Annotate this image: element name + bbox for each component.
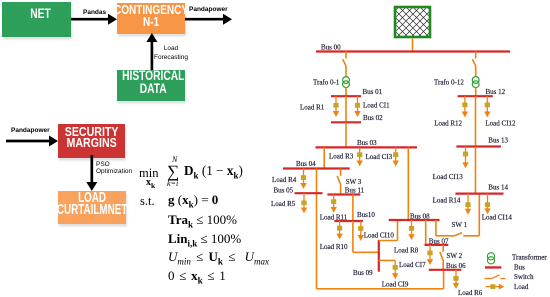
svg-text:Load CI1: Load CI1 — [363, 102, 390, 110]
svg-text:Load R3: Load R3 — [329, 153, 354, 161]
svg-text:Load CI12: Load CI12 — [485, 119, 516, 127]
load Load R12 — [462, 96, 468, 117]
switch SW 3 — [337, 176, 341, 186]
wire Bus 04 through Bus 05 down to bottom feeder — [316, 169, 318, 289]
load Load R14 — [465, 194, 471, 215]
bus Bus10 — [334, 220, 363, 222]
bus Bus 05 — [295, 192, 323, 194]
label PSO Optimization — [96, 161, 132, 176]
arrow SECURITY MARGINS down to LOAD CURTAILMNET — [86, 155, 97, 191]
svg-text:Bus 01: Bus 01 — [363, 88, 383, 96]
svg-text:Load CI13: Load CI13 — [433, 173, 464, 181]
label Pandapower (left) — [11, 127, 50, 134]
bus Bus 03 — [316, 146, 418, 148]
svg-text:SW 2: SW 2 — [447, 252, 463, 260]
generator G0 — [395, 7, 430, 37]
load Load R4 — [300, 169, 306, 189]
svg-text:Bus 08: Bus 08 — [410, 213, 430, 221]
svg-text:Load CI10: Load CI10 — [364, 231, 395, 239]
svg-text:Load CI9: Load CI9 — [382, 280, 409, 288]
svg-text:Load R4: Load R4 — [272, 176, 297, 184]
legend transformer symbol — [487, 253, 494, 264]
svg-text:Load CI14: Load CI14 — [482, 213, 513, 221]
wire Bus 00 down (left branch, to switch) — [345, 52, 347, 59]
svg-text:Transformer: Transformer — [512, 254, 547, 262]
bus Bus 02 — [331, 121, 361, 123]
bus Bus 07 — [425, 244, 449, 246]
load Load R8 — [408, 220, 414, 240]
wire Bus 03 to Bus 04 — [323, 147, 325, 168]
arrow Pandapower into SECURITY MARGINS — [6, 136, 58, 147]
svg-text:Load R12: Load R12 — [434, 119, 462, 127]
transformer Trafo 0-12 — [472, 77, 479, 88]
wire switch to transformer — [345, 66, 347, 77]
switch SW 1 — [455, 233, 463, 236]
bus Bus 08 — [389, 219, 440, 221]
flowchart box LOAD CURTAILMNET — [58, 191, 126, 224]
svg-text:Load R14: Load R14 — [433, 197, 461, 205]
load Load CI3 — [393, 147, 399, 166]
transformer Trafo 0-1 — [343, 77, 350, 88]
svg-text:Bus 03: Bus 03 — [357, 139, 377, 147]
load Load CI10 — [358, 221, 364, 241]
flowchart box NET — [2, 2, 71, 37]
wire transformer to Bus 12 — [475, 88, 477, 97]
bus Bus 12 — [458, 95, 493, 97]
flowchart box SECURITY MARGINS — [58, 124, 125, 158]
svg-text:Trafo 0-1: Trafo 0-1 — [313, 79, 340, 87]
legend load symbol — [486, 284, 505, 290]
svg-text:Load R8: Load R8 — [394, 247, 419, 255]
wire Bus 12 to Bus 13 — [475, 96, 477, 146]
flowchart box HISTORICAL DATA — [117, 70, 185, 101]
load Load CI1 — [354, 96, 360, 117]
flowchart box CONTINGENCY N-1 — [117, 3, 185, 34]
svg-text:Load CI3: Load CI3 — [366, 153, 393, 161]
bus Bus 00 — [316, 50, 510, 52]
bus Bus 14 — [455, 193, 503, 195]
wire generator to Bus 00 — [412, 38, 414, 51]
wire Bus 08 down to Bus 09 — [397, 220, 399, 241]
load Load R11 — [331, 195, 337, 213]
load Load CI13 — [462, 147, 468, 169]
label Pandapower (top) — [189, 6, 228, 13]
svg-text:Load R6: Load R6 — [458, 289, 483, 297]
svg-text:Bus 07: Bus 07 — [429, 237, 449, 245]
wire Bus 02 to Bus 03 — [345, 122, 347, 147]
load Load R6 — [453, 270, 459, 289]
legend bus symbol — [485, 266, 501, 268]
bus Bus 01 — [331, 95, 361, 97]
math block — [138, 165, 278, 167]
legend switch symbol — [484, 275, 505, 279]
wire Bus 08 to switch SW 1 — [435, 220, 437, 236]
svg-text:Trafo 0-12: Trafo 0-12 — [434, 79, 464, 87]
svg-text:Bus10: Bus10 — [357, 211, 375, 219]
svg-text:Bus 05: Bus 05 — [274, 187, 294, 195]
svg-text:Bus 11: Bus 11 — [345, 187, 365, 195]
label Pandas — [83, 9, 106, 16]
wire Bus 08 to Bus 07 — [425, 220, 427, 245]
svg-text:Bus 12: Bus 12 — [486, 88, 506, 96]
svg-text:Bus 02: Bus 02 — [363, 114, 383, 122]
svg-text:SW 1: SW 1 — [452, 221, 468, 229]
wire Bus 07 to switch SW 2 — [442, 245, 444, 252]
svg-text:Load R1: Load R1 — [300, 104, 325, 112]
load Load CI7 — [427, 245, 433, 265]
svg-text:SW 3: SW 3 — [346, 178, 362, 186]
svg-text:Load R10: Load R10 — [320, 243, 348, 251]
switch (Trafo 0-1 HV side, open blade) — [343, 59, 346, 65]
wire Bus10 down to Bus 09 — [352, 221, 354, 252]
wire bottom feeder to Bus 06 — [317, 288, 444, 290]
svg-text:Load R5: Load R5 — [271, 200, 296, 208]
bus Bus 11 — [327, 193, 360, 195]
arrow CONTINGENCY to right (Pandapower) — [185, 14, 232, 25]
bus Bus 06 — [429, 269, 462, 271]
switch (Trafo 0-12 HV side, open blade) — [472, 59, 475, 65]
bus Bus 13 — [456, 145, 501, 147]
svg-text:Bus 09: Bus 09 — [353, 269, 373, 277]
load Load CI9 — [392, 260, 398, 279]
svg-text:Bus 06: Bus 06 — [446, 262, 466, 270]
svg-text:Bus 13: Bus 13 — [488, 137, 508, 145]
svg-text:Bus 00: Bus 00 — [321, 44, 341, 52]
wire Bus 11 to Bus10 — [352, 195, 354, 222]
wire Bus 04 to switch SW 3 — [340, 169, 342, 176]
wire transformer to Bus 01 — [345, 88, 347, 97]
wire Bus 03 to Bus 08 — [407, 147, 409, 220]
wire Bus 00 down (right branch, to switch) — [475, 52, 477, 59]
arrow HISTORICAL DATA up to CONTINGENCY — [146, 33, 157, 70]
bus Bus 09 (vertical) — [378, 240, 380, 272]
svg-text:Bus 04: Bus 04 — [296, 160, 316, 168]
load Load R3 — [357, 147, 363, 166]
label Load Forecasting — [154, 44, 188, 62]
wire Bus 13 to Bus 14 — [475, 147, 477, 194]
svg-text:Load CI7: Load CI7 — [399, 261, 426, 269]
svg-text:Switch: Switch — [514, 273, 534, 281]
switch SW 2 — [440, 252, 444, 262]
svg-text:Bus: Bus — [514, 264, 525, 272]
svg-text:Load: Load — [514, 283, 529, 291]
wire SW 1 up to Bus 14 — [478, 194, 480, 236]
svg-text:Bus 14: Bus 14 — [488, 184, 508, 192]
load Load R10 — [336, 221, 342, 240]
load Load CI12 — [484, 96, 490, 117]
arrow NET to CONTINGENCY — [71, 14, 117, 25]
wire Bus 09 to Load CI9 — [379, 259, 395, 261]
load Load R5 — [301, 193, 307, 213]
load Load R1 — [333, 96, 339, 117]
bus Bus 04 — [283, 167, 350, 169]
wire Bus 01 to Bus 02 — [345, 96, 347, 122]
load Load CI14 — [484, 194, 490, 215]
